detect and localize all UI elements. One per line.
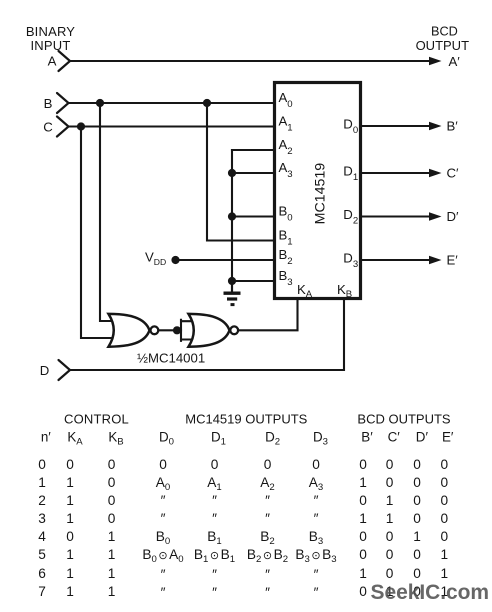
junction node at 207,103 bbox=[203, 99, 211, 107]
table column D2 values bbox=[223, 456, 313, 602]
table column D' values bbox=[402, 456, 432, 601]
arrowhead to output B′ bbox=[429, 122, 442, 131]
svg-text:BINARY: BINARY bbox=[26, 24, 75, 39]
table header MC14519 OUTPUTS bbox=[166, 412, 326, 427]
junction node at 100,103 bbox=[96, 99, 104, 107]
arrowhead to output A′ bbox=[429, 57, 442, 66]
IC U1 MC14519 body bbox=[275, 83, 361, 299]
watermark SeekIC.com bbox=[371, 581, 490, 605]
svg-text:D′: D′ bbox=[447, 209, 460, 224]
table column D3 values bbox=[271, 456, 361, 602]
table column C' values bbox=[375, 456, 405, 601]
svg-text:BCD: BCD bbox=[431, 24, 458, 38]
wire gate U1A output to gate U1B input bbox=[159, 329, 181, 331]
svg-text:VDD: VDD bbox=[145, 250, 166, 268]
table column B' values bbox=[348, 456, 378, 601]
table column KB values bbox=[97, 456, 127, 601]
wire output D0 bbox=[362, 125, 433, 127]
wire to pin A3 bbox=[232, 172, 273, 174]
column heading D1 bbox=[159, 430, 279, 445]
column heading KB bbox=[56, 430, 176, 445]
svg-text:B: B bbox=[44, 96, 53, 111]
arrowhead to output D′ bbox=[429, 212, 442, 221]
wire output D1 bbox=[362, 172, 433, 174]
input terminal B bbox=[57, 93, 69, 113]
table column n' bbox=[27, 456, 57, 601]
svg-text:MC14519: MC14519 bbox=[312, 163, 328, 225]
wire output D2 bbox=[362, 215, 433, 217]
svg-text:E′: E′ bbox=[447, 253, 459, 268]
column heading D' bbox=[362, 430, 482, 445]
junction node at 232,173 bbox=[228, 169, 236, 177]
svg-text:A′: A′ bbox=[449, 54, 461, 69]
wire to pin B0 bbox=[232, 215, 273, 217]
svg-text:B′: B′ bbox=[447, 119, 459, 134]
column heading D2 bbox=[213, 430, 333, 445]
junction node at 175.5,260 bbox=[171, 256, 179, 264]
wire B branch down to pin B1 bbox=[207, 103, 273, 241]
column heading D3 bbox=[261, 430, 381, 445]
table column E' values bbox=[429, 456, 459, 601]
wire to pin B3 bbox=[232, 280, 273, 282]
wire input A horizontal bbox=[70, 60, 433, 62]
ground bbox=[224, 281, 241, 305]
wire output D3 bbox=[362, 259, 433, 261]
wire ground bus vertical bbox=[231, 150, 233, 292]
wire VDD to pin B2 bbox=[176, 259, 274, 261]
table column KA values bbox=[55, 456, 85, 601]
column heading B' bbox=[307, 430, 427, 445]
wire input C to pin A1 bbox=[69, 125, 273, 127]
junction node at 232,281 bbox=[228, 277, 236, 285]
svg-text:D: D bbox=[40, 363, 50, 378]
svg-text:C′: C′ bbox=[447, 166, 460, 181]
svg-text:A: A bbox=[48, 54, 57, 69]
junction node at 177,330.3 bbox=[173, 326, 181, 334]
table header BCD OUTPUTS bbox=[339, 412, 469, 427]
svg-text:INPUT: INPUT bbox=[31, 38, 71, 53]
NOR gate U1A (1/2 MC14001) bbox=[109, 314, 150, 347]
junction node at 232,216.5 bbox=[228, 212, 236, 220]
arrowhead to output E′ bbox=[429, 256, 442, 265]
svg-text:C: C bbox=[43, 120, 53, 135]
wire gate U1B output to pin KA bbox=[239, 299, 298, 330]
wire B branch down to NOR gate U1A upper input bbox=[100, 103, 114, 321]
wire input D to pin KB bbox=[70, 299, 344, 370]
column heading D0 bbox=[107, 430, 227, 445]
wire to pin A2 bbox=[232, 149, 273, 151]
input terminal D bbox=[59, 360, 71, 380]
wire gate U1B tied input bar bbox=[181, 320, 192, 341]
column heading KA bbox=[15, 430, 135, 445]
arrowhead to output C′ bbox=[429, 169, 442, 178]
junction node at 81,126.5 bbox=[77, 122, 85, 130]
svg-text:OUTPUT: OUTPUT bbox=[416, 38, 470, 53]
table column D0 values bbox=[118, 456, 208, 602]
input terminal A bbox=[59, 51, 71, 71]
NOR gate U1B (1/2 MC14001) bbox=[189, 314, 230, 347]
column heading E' bbox=[388, 430, 492, 445]
wire C branch down to NOR gate U1A lower input bbox=[81, 127, 114, 339]
input terminal C bbox=[57, 117, 69, 137]
column heading C' bbox=[334, 430, 454, 445]
wire input B to pin A0 bbox=[69, 102, 273, 104]
table header CONTROL bbox=[37, 412, 157, 427]
column heading n' bbox=[0, 430, 106, 445]
table column D1 values bbox=[170, 456, 260, 602]
svg-text:½MC14001: ½MC14001 bbox=[137, 351, 205, 366]
